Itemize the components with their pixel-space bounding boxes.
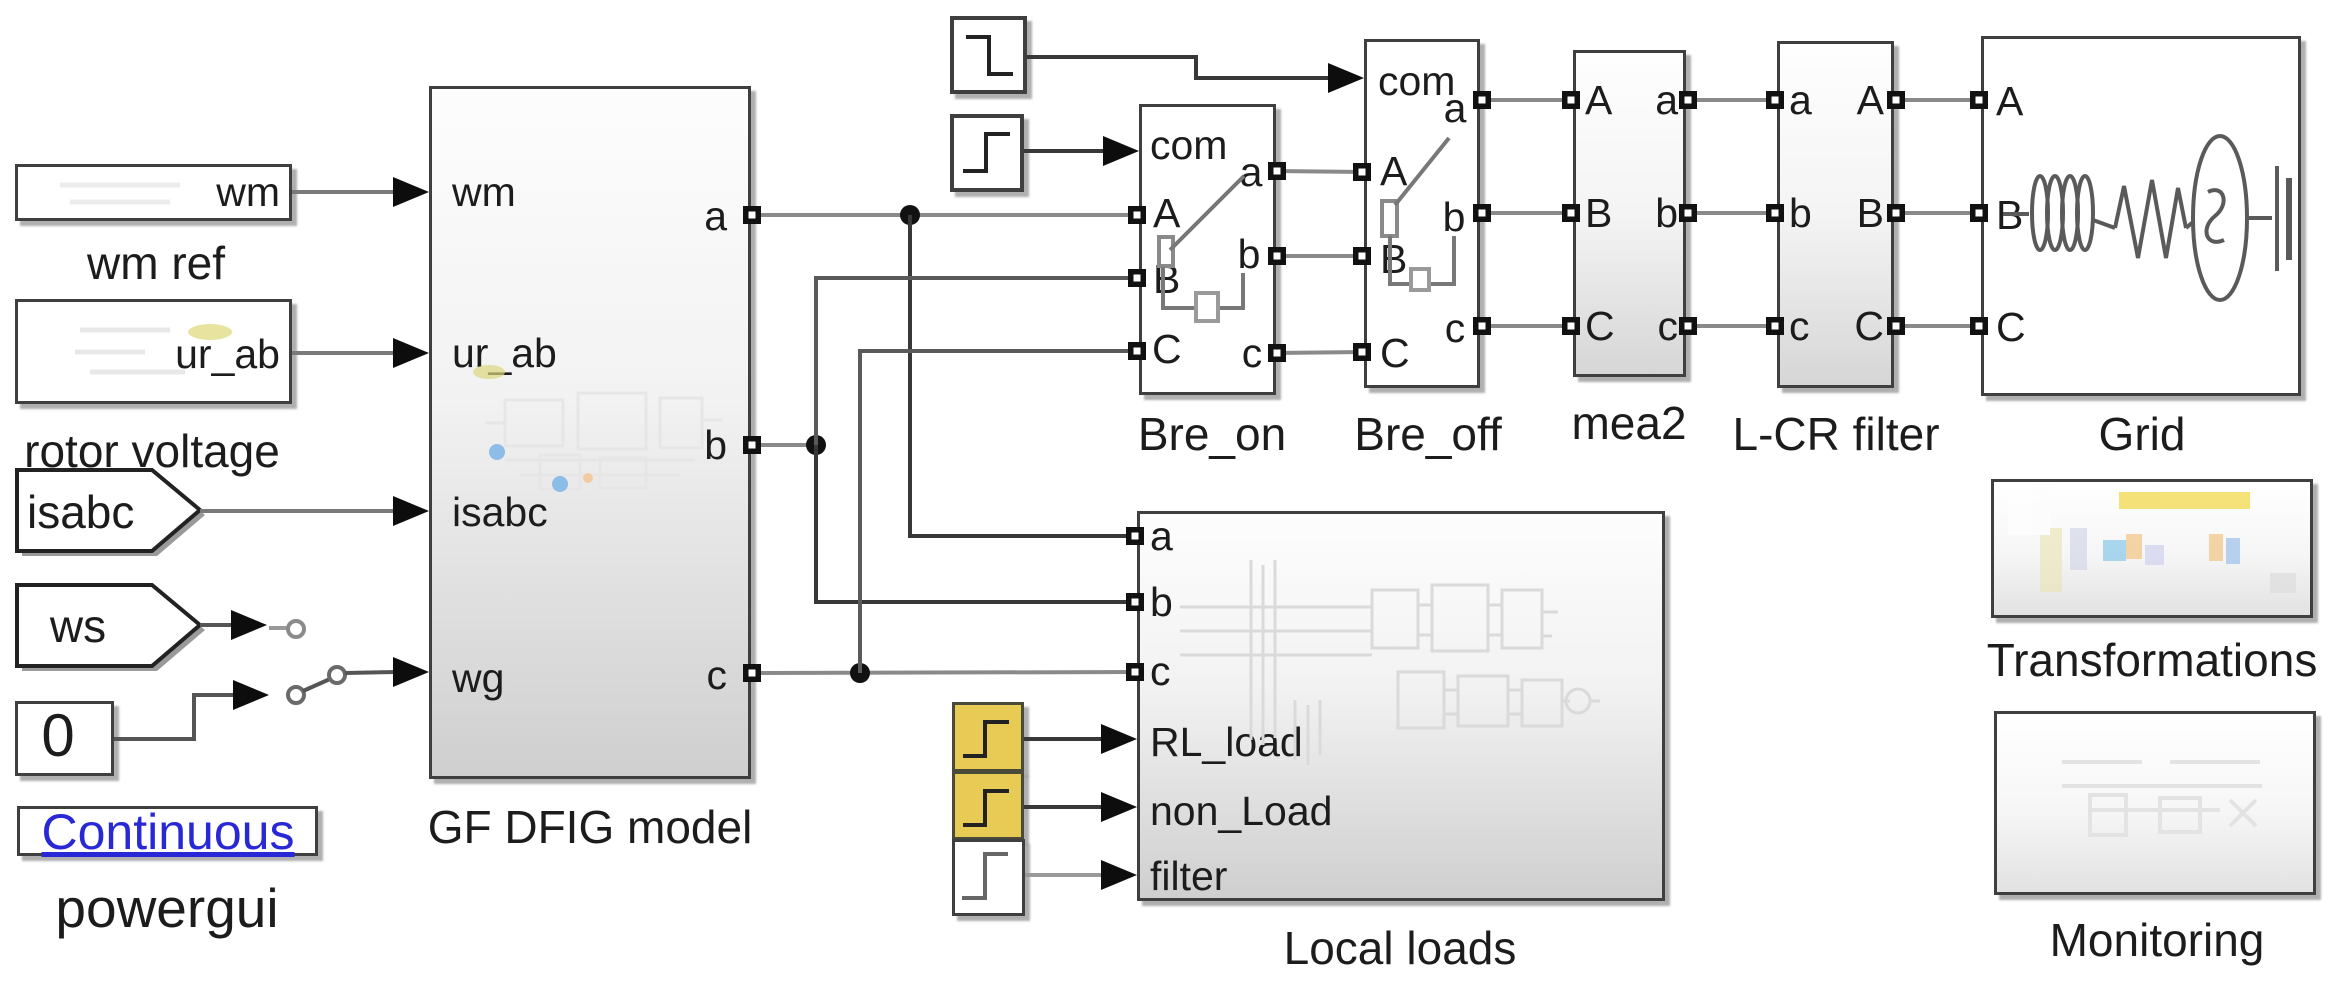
- port DFIG c: [743, 664, 761, 682]
- wire b branch down to Local loads b: [816, 445, 1137, 602]
- ws tag shadow: [22, 590, 205, 671]
- port label b mea2: [1655, 193, 1678, 234]
- port Bre_off A: [1353, 163, 1371, 181]
- wire constant 0 to switch: [114, 695, 233, 739]
- block constant 0: [15, 701, 114, 776]
- port label ur_ab: [452, 333, 557, 374]
- port Bre_on B: [1128, 269, 1146, 287]
- port label B Grid: [1996, 195, 2023, 236]
- port label b Local loads: [1150, 582, 1173, 623]
- arrowhead ur_ab: [393, 338, 429, 368]
- wire Bre_on a to Bre_off A: [1275, 171, 1364, 172]
- watermark Local loads preview: [1180, 560, 1600, 765]
- watermark DFIG blue dots: [473, 365, 593, 492]
- port label a mea2: [1655, 80, 1678, 121]
- Grid circuit: terminator bars: [2247, 166, 2289, 271]
- port Grid B: [1970, 204, 1988, 222]
- port label b Bre_on: [1238, 234, 1261, 275]
- wire switch to wg: [345, 672, 397, 673]
- port label wg: [452, 658, 504, 699]
- Grid circuit: AC source: [2193, 136, 2247, 300]
- wire Step1 to Bre_off com: [1027, 57, 1329, 78]
- junction dot a: [900, 205, 920, 225]
- step icon StepA yellow: [963, 722, 1009, 756]
- watermark wm ref: [60, 185, 180, 202]
- label rotor voltage: [24, 428, 280, 474]
- wire DFIG c to Local loads c: [750, 672, 1137, 673]
- label powergui: [55, 881, 278, 936]
- block Monitoring: [1994, 711, 2316, 895]
- block Local loads: [1137, 511, 1665, 901]
- port mea2 B: [1562, 204, 1580, 222]
- label ws in tag: [50, 603, 106, 649]
- port label B mea2: [1585, 193, 1612, 234]
- arrowhead wg: [393, 657, 429, 687]
- port label A LCR: [1857, 80, 1884, 121]
- arrowhead ws contact: [231, 610, 267, 640]
- arrowhead 0 contact: [233, 680, 269, 710]
- arrowhead RL_load: [1101, 724, 1137, 754]
- port label C mea2: [1585, 306, 1615, 347]
- watermark rotor voltage: [75, 324, 232, 372]
- block GF DFIG model: [429, 86, 751, 779]
- port label c Bre_off: [1445, 308, 1466, 349]
- breaker icon Bre_on: [1159, 176, 1244, 321]
- port Bre_on b: [1268, 247, 1286, 265]
- switch contact circle upper: [269, 621, 304, 637]
- wire wm ref to DFIG: [292, 190, 395, 194]
- port label a Bre_off: [1444, 88, 1467, 129]
- wire DFIG a to Bre_on A: [750, 213, 1139, 217]
- port LCR A: [1887, 91, 1905, 109]
- switch pivot circle: [329, 667, 345, 683]
- wire b branch up to Bre_on B: [816, 278, 1139, 445]
- port label B Bre_on: [1153, 259, 1180, 300]
- label Transformations: [1987, 637, 2318, 683]
- wire LCR A to Grid A: [1894, 98, 1981, 102]
- wire Bre_off c to mea2 C: [1480, 324, 1573, 328]
- block Bre_on breaker: [1139, 104, 1276, 395]
- arrowhead non_Load: [1101, 792, 1137, 822]
- step icon StepB yellow: [963, 791, 1009, 825]
- wire Bre_on c to Bre_off C: [1275, 352, 1364, 353]
- port mea2 a: [1679, 91, 1697, 109]
- block Step2 (step up): [950, 114, 1024, 192]
- port Bre_off C: [1353, 343, 1371, 361]
- port label a Local loads: [1150, 516, 1173, 557]
- port label B Bre_off: [1380, 239, 1407, 280]
- arrowhead isabc: [393, 496, 429, 526]
- wire a branch down: [910, 215, 1137, 536]
- block Bre_off breaker: [1364, 39, 1480, 388]
- port LCR B: [1887, 204, 1905, 222]
- block Grid: [1981, 36, 2301, 396]
- block powergui: [17, 806, 318, 856]
- arrowhead wm: [393, 177, 429, 207]
- port label C Grid: [1996, 307, 2026, 348]
- port label filter: [1150, 856, 1227, 897]
- wire DFIG b stub: [750, 443, 816, 447]
- block StepA yellow (step up): [952, 702, 1024, 772]
- port mea2 A: [1562, 91, 1580, 109]
- watermark Monitoring: [2062, 762, 2262, 835]
- arrowhead Bre_off com: [1328, 63, 1364, 93]
- wire c branch up to Bre_on C: [860, 351, 1139, 673]
- switch contact circle lower: [288, 687, 304, 703]
- port LCR a: [1766, 91, 1784, 109]
- block Step1 (step down): [950, 16, 1027, 94]
- port label A Grid: [1996, 81, 2023, 122]
- port Local loads b: [1126, 593, 1144, 611]
- port label A Bre_on: [1153, 193, 1180, 234]
- port Local loads a: [1126, 527, 1144, 545]
- isabc tag shadow: [22, 475, 205, 556]
- breaker icon Bre_off: [1382, 138, 1454, 290]
- port label com Bre_on: [1150, 125, 1227, 166]
- port label a LCR: [1789, 80, 1812, 121]
- wire rotor voltage to DFIG: [292, 351, 395, 355]
- port label A mea2: [1585, 80, 1612, 121]
- port Bre_off c: [1473, 317, 1491, 335]
- block mea2: [1573, 50, 1686, 377]
- wire Bre_off b to mea2 B: [1480, 211, 1573, 215]
- wire mea2 c to LCR c: [1686, 324, 1777, 328]
- port Local loads c: [1126, 663, 1144, 681]
- wire ws to switch contact: [200, 623, 233, 627]
- step icon StepC: [962, 854, 1008, 898]
- port label b Bre_off: [1443, 197, 1466, 238]
- port mea2 c: [1679, 317, 1697, 335]
- label Monitoring: [2050, 917, 2265, 963]
- port mea2 b: [1679, 204, 1697, 222]
- isabc tag: [17, 470, 200, 551]
- port DFIG a: [743, 206, 761, 224]
- label GF DFIG model: [428, 804, 753, 850]
- port label non_Load: [1150, 791, 1332, 832]
- Grid circuit: resistor: [2093, 180, 2193, 258]
- ws tag: [17, 585, 200, 666]
- block StepB yellow (step up): [952, 771, 1024, 840]
- step icon Step1: [966, 37, 1013, 74]
- port label a out: [704, 196, 727, 237]
- wire LCR C to Grid C: [1894, 324, 1981, 328]
- port label c out: [707, 655, 728, 696]
- port label A Bre_off: [1380, 151, 1407, 192]
- junction dot b: [806, 435, 826, 455]
- label Continuous: [42, 807, 295, 857]
- port label RL_load: [1150, 722, 1303, 763]
- wire StepA to RL_load: [1024, 737, 1104, 741]
- label 0: [41, 706, 74, 766]
- label ur_ab inside rotor voltage: [175, 334, 280, 375]
- port LCR C: [1887, 317, 1905, 335]
- wire Bre_on b to Bre_off B: [1275, 254, 1364, 258]
- arrowhead Bre_on com: [1103, 136, 1139, 166]
- wire Step2 to Bre_on com: [1024, 149, 1104, 153]
- port label c Local loads: [1150, 651, 1171, 692]
- port Bre_on a: [1268, 162, 1286, 180]
- port DFIG b: [743, 436, 761, 454]
- port label isabc: [452, 492, 548, 533]
- wire LCR B to Grid B: [1894, 211, 1981, 215]
- wire StepC to filter: [1025, 873, 1104, 877]
- junction dot c: [850, 663, 870, 683]
- wire isabc to DFIG: [200, 509, 395, 513]
- label mea2: [1571, 400, 1686, 446]
- wire StepB to non_Load: [1024, 805, 1104, 809]
- port label C Bre_on: [1152, 329, 1182, 370]
- block rotor voltage (source): [15, 299, 292, 404]
- label L-CR filter: [1732, 411, 1939, 457]
- port Bre_on c: [1268, 344, 1286, 362]
- port Bre_on A: [1128, 206, 1146, 224]
- port label b out: [704, 425, 727, 466]
- wire Bre_off a to mea2 A: [1480, 98, 1573, 102]
- port label b LCR: [1789, 193, 1812, 234]
- port label c Bre_on: [1242, 333, 1263, 374]
- port mea2 C: [1562, 317, 1580, 335]
- port Bre_off B: [1353, 247, 1371, 265]
- block Transformations: [1991, 479, 2313, 618]
- block L-CR filter: [1777, 41, 1894, 388]
- step icon Step2: [963, 134, 1010, 171]
- port Bre_on C: [1128, 342, 1146, 360]
- switch blade: [303, 679, 330, 691]
- port label C LCR: [1854, 306, 1884, 347]
- port label a Bre_on: [1240, 152, 1263, 193]
- block wm ref (source): [15, 164, 292, 221]
- port Grid A: [1970, 91, 1988, 109]
- wire mea2 b to LCR b: [1686, 211, 1777, 215]
- port LCR b: [1766, 204, 1784, 222]
- label isabc in tag: [27, 489, 134, 535]
- port LCR c: [1766, 317, 1784, 335]
- label Local loads: [1284, 925, 1517, 971]
- Grid circuit: inductor coil: [2003, 176, 2093, 250]
- label wm inside wm ref: [216, 172, 280, 213]
- watermark Transformations: [2008, 487, 2296, 593]
- port label com Bre_off: [1378, 61, 1455, 102]
- port Bre_off a: [1473, 91, 1491, 109]
- port label wm: [452, 172, 516, 213]
- wire mea2 a to LCR a: [1686, 98, 1777, 102]
- port label B LCR: [1857, 193, 1884, 234]
- port label c LCR: [1789, 306, 1810, 347]
- label wm ref: [87, 240, 225, 286]
- port Grid C: [1970, 317, 1988, 335]
- watermark GF DFIG model preview: [485, 393, 722, 489]
- arrowhead filter: [1101, 860, 1137, 890]
- label Grid: [2099, 411, 2186, 457]
- label Bre_off: [1354, 411, 1501, 457]
- label Bre_on: [1138, 411, 1286, 457]
- port label C Bre_off: [1380, 333, 1410, 374]
- port Bre_off b: [1473, 204, 1491, 222]
- block StepC (step up): [952, 839, 1025, 916]
- port label c mea2: [1658, 306, 1679, 347]
